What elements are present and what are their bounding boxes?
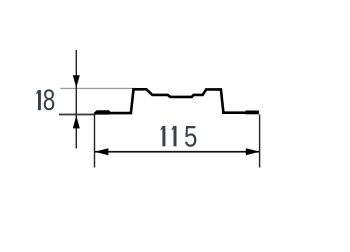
digit 1 of 115 (second)	[174, 126, 177, 146]
digit 1 of 18	[38, 90, 41, 110]
arrow down (18 top)	[73, 75, 80, 88]
arrow left (115)	[95, 148, 109, 155]
label 115	[160, 119, 197, 153]
svg-text:5: 5	[184, 119, 197, 153]
dimension line 18 (vertical)	[76, 50, 77, 149]
bottom extension line	[59, 114, 95, 116]
extension line 115 right	[259, 114, 260, 167]
svg-text:8: 8	[43, 83, 56, 117]
arrow right (115)	[246, 148, 260, 155]
label 18	[36, 83, 55, 117]
profile right fold lip	[246, 111, 259, 115]
digit 1 of 115	[162, 126, 165, 146]
extension line 115 left	[94, 115, 95, 168]
dimension line 115 (horizontal)	[95, 151, 259, 153]
top extension line (gray)	[61, 88, 136, 89]
profile outline	[95, 89, 247, 114]
profile left fold lip	[94, 110, 109, 114]
arrow up (18 bottom)	[73, 116, 80, 129]
